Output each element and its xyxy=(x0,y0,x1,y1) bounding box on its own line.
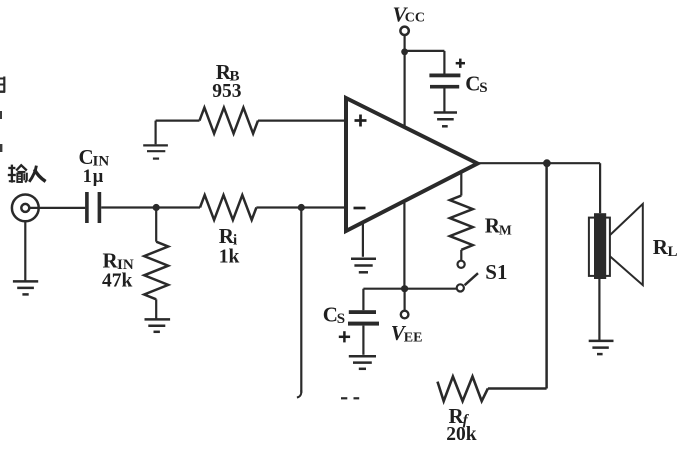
node junction output xyxy=(543,159,551,167)
wire speaker to ground xyxy=(598,279,600,340)
wire R_M to switch contact xyxy=(460,250,462,261)
svg-text:1: 1 xyxy=(83,167,92,187)
resistor R_B xyxy=(200,108,259,134)
terminal V_CC xyxy=(400,27,408,35)
label R_M xyxy=(485,214,512,238)
op-amp U1 xyxy=(346,98,478,231)
capacitor C_IN xyxy=(85,192,101,223)
label 1u value xyxy=(83,167,104,187)
svg-text:L: L xyxy=(668,244,678,260)
svg-text:R: R xyxy=(653,235,669,259)
wire feedback bottom horizontal xyxy=(488,387,547,390)
label C_S top xyxy=(465,72,487,97)
speaker R_L magnet bar xyxy=(594,213,606,279)
label R_f xyxy=(449,404,470,429)
resistor R_M xyxy=(450,196,473,250)
input connector J1 xyxy=(12,195,39,222)
ground (speaker) xyxy=(589,341,614,354)
svg-text:C: C xyxy=(323,303,338,327)
switch S1 lower contact xyxy=(457,284,464,291)
wire op-amp bottom to ground xyxy=(362,222,364,257)
ground (op-amp) xyxy=(351,259,376,273)
svg-text:S: S xyxy=(479,80,487,96)
wire op-amp output xyxy=(478,162,600,164)
ground (C_S bottom) xyxy=(349,356,376,369)
node junction feedback takeoff xyxy=(298,204,305,211)
resistor R_f xyxy=(438,377,488,402)
plus polarity mark C_S top xyxy=(456,59,465,68)
wire C_IN to node xyxy=(101,206,156,208)
switch S1 lever xyxy=(465,273,478,285)
node junction V_EE xyxy=(401,285,408,292)
capacitor C_S (bottom) xyxy=(348,310,379,325)
resistor R_IN xyxy=(144,242,168,300)
wire output to speaker xyxy=(599,163,601,213)
label C_S bottom xyxy=(323,303,345,328)
label C_IN xyxy=(79,145,110,169)
label 输入 (input) xyxy=(8,165,46,183)
wire to capacitor C_S top plate xyxy=(443,51,445,74)
wire hook at bottom of riser xyxy=(297,390,301,398)
ground (R_B) xyxy=(143,145,168,158)
node junction at R_IN top xyxy=(153,204,160,211)
label R_L xyxy=(653,235,678,260)
svg-text:μ: μ xyxy=(93,167,104,187)
svg-text:C: C xyxy=(465,72,480,96)
op-amp minus input marking xyxy=(354,207,366,210)
wire C_S to ground xyxy=(443,89,445,112)
wire op-amp output edge to R_M xyxy=(460,171,462,196)
ground (C_S top) xyxy=(434,113,457,127)
text fragment left edge middle xyxy=(0,111,2,119)
wire feedback down xyxy=(545,163,548,388)
wire junction to C_S top xyxy=(405,50,445,52)
wire input connector to ground xyxy=(24,221,26,281)
wire junction to op-amp positive supply xyxy=(404,52,406,128)
op-amp plus input marking xyxy=(355,115,367,127)
svg-text:C: C xyxy=(79,145,94,169)
svg-text:EE: EE xyxy=(404,330,423,345)
capacitor C_S (top) xyxy=(429,74,460,89)
svg-text:S: S xyxy=(337,311,345,327)
label R_i xyxy=(219,224,237,249)
label R_IN xyxy=(103,248,134,273)
svg-text:S1: S1 xyxy=(485,260,507,284)
label V_CC xyxy=(393,3,426,27)
wire rail down to C_S bottom xyxy=(362,289,364,311)
label V_EE xyxy=(391,321,423,346)
wire op-amp negative supply down to V_EE node xyxy=(403,203,405,289)
wire node to R_i xyxy=(156,206,200,208)
wire R_B to non-inverting input xyxy=(258,119,346,121)
wire R_IN to ground xyxy=(155,299,157,318)
speaker R_L cone xyxy=(610,204,643,285)
wire ground up to R_B xyxy=(155,121,157,145)
label R_B xyxy=(216,60,240,85)
plus polarity mark C_S bottom xyxy=(339,331,350,342)
wire R_i to inverting input xyxy=(256,206,346,208)
svg-text:953: 953 xyxy=(212,81,242,102)
ground (input) xyxy=(13,281,38,294)
svg-text:47k: 47k xyxy=(102,271,133,292)
resistor R_i xyxy=(200,195,256,220)
ground (R_IN) xyxy=(145,319,171,331)
wire feedback riser to inverting node xyxy=(300,208,302,393)
wire C_S bottom to ground xyxy=(362,326,364,355)
node junction V_CC xyxy=(401,48,408,55)
broken wire dashes xyxy=(341,397,359,399)
svg-text:CC: CC xyxy=(405,11,425,26)
text fragment left edge lower xyxy=(0,144,2,152)
switch S1 upper contact xyxy=(458,261,465,268)
wire node down to R_IN xyxy=(155,208,157,242)
wire input to C_IN xyxy=(30,207,86,209)
wire to R_B xyxy=(156,119,200,121)
wire node to V_EE terminal xyxy=(404,289,406,311)
svg-text:20k: 20k xyxy=(446,424,477,445)
svg-text:1k: 1k xyxy=(219,247,240,268)
speaker R_L driver outline xyxy=(589,218,610,276)
text fragment (cropped character) left edge top xyxy=(0,77,5,93)
terminal V_EE xyxy=(401,311,409,319)
svg-text:M: M xyxy=(499,222,512,237)
wire V_CC to junction xyxy=(404,35,406,52)
wire V_EE rail horizontal xyxy=(363,288,456,290)
